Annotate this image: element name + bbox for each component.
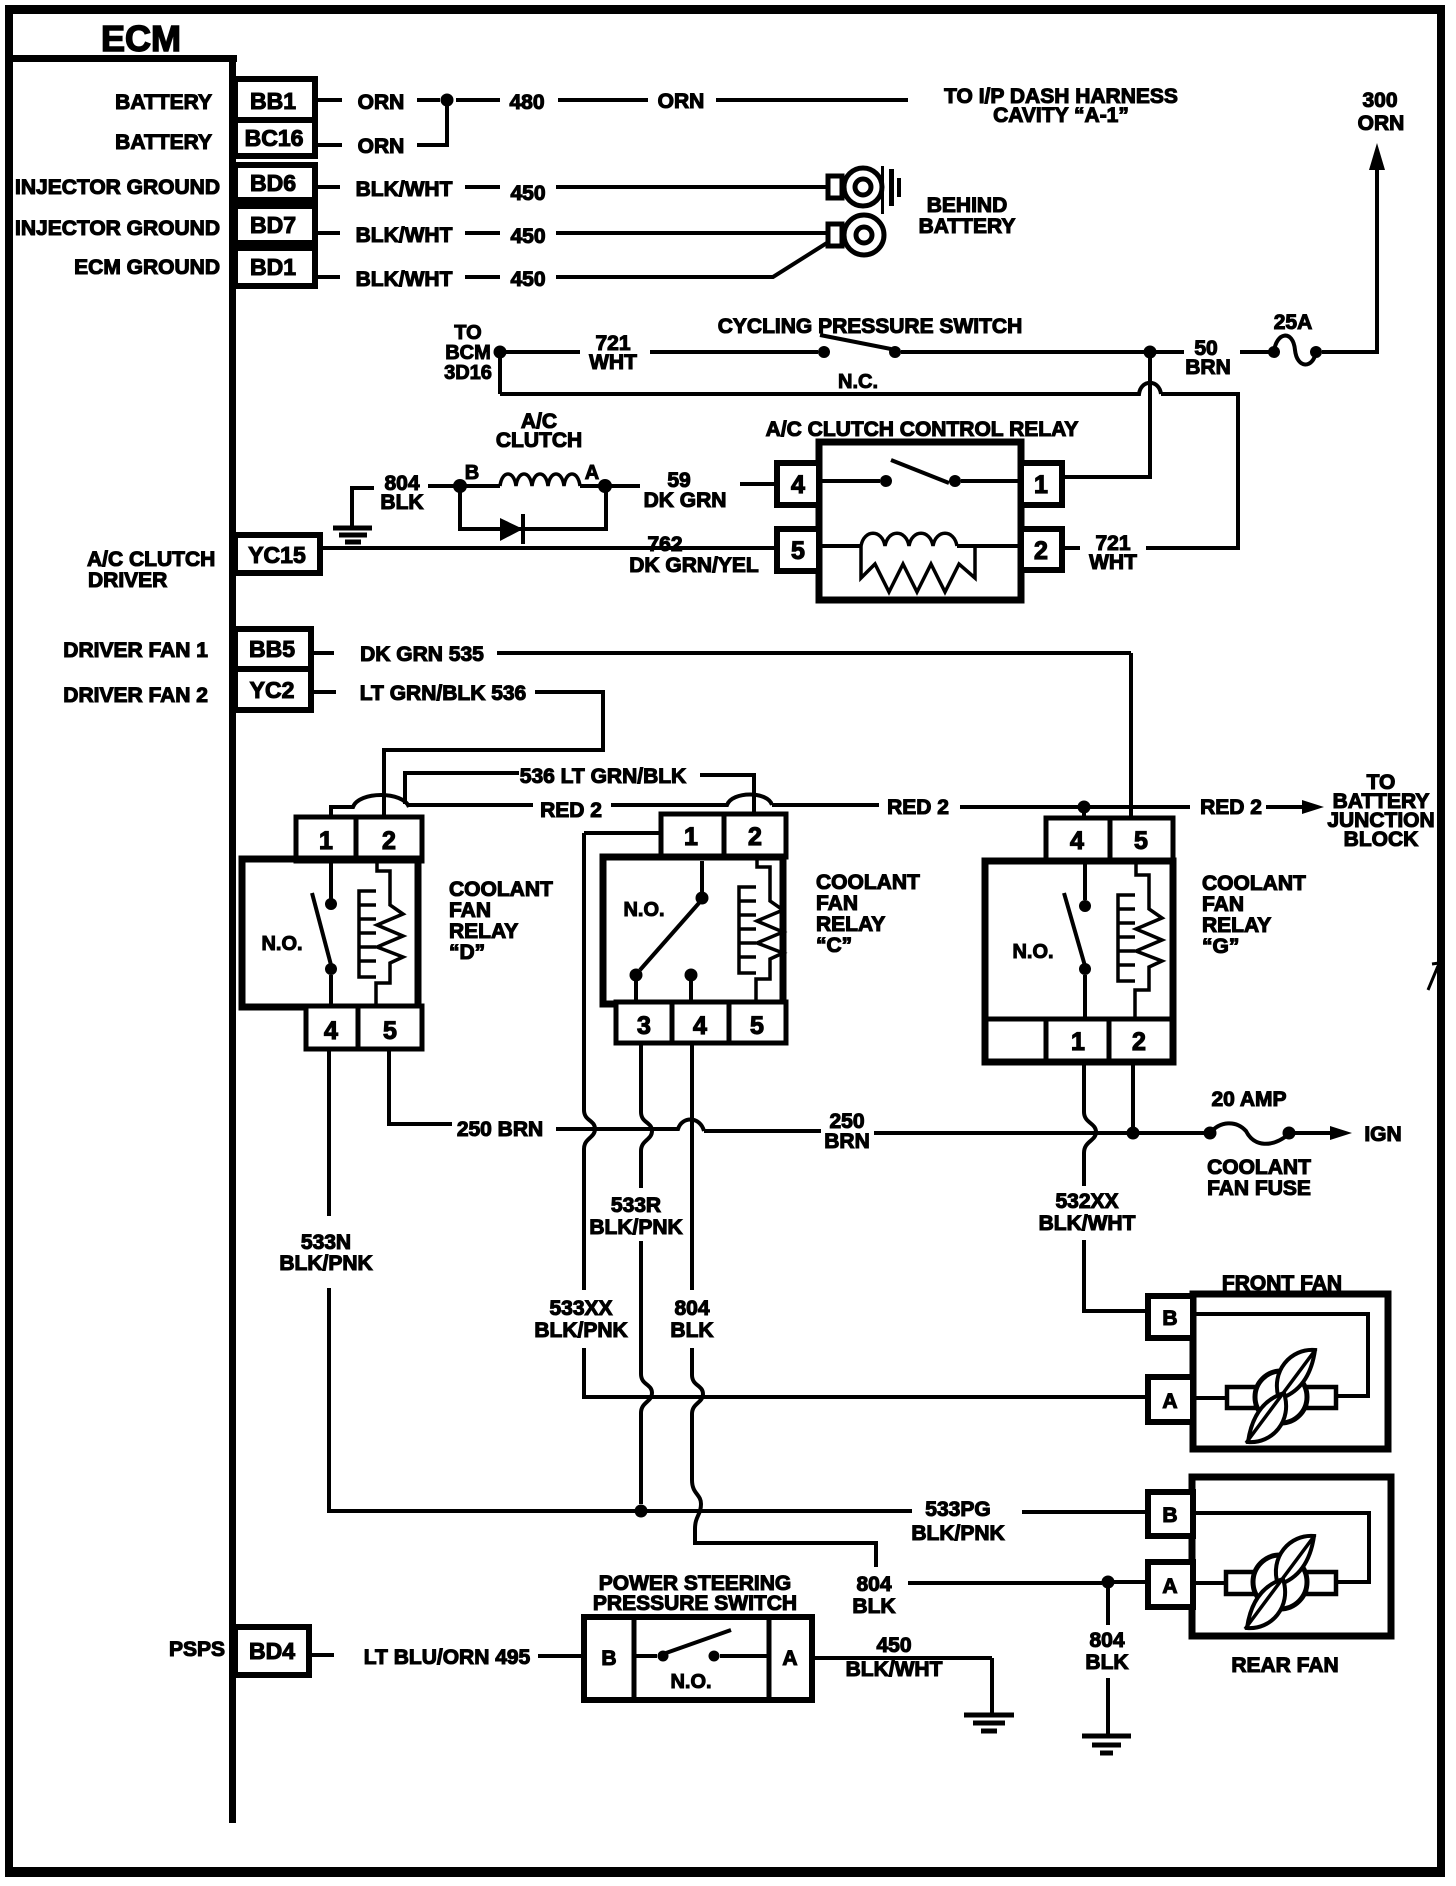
ECM pin BD4 (PSPS) bbox=[169, 1627, 309, 1675]
label COOLANT FAN RELAY G bbox=[1202, 872, 1306, 958]
svg-text:BLK/WHT: BLK/WHT bbox=[846, 1658, 943, 1681]
wire 536 LT GRN/BLK branch to relay C bbox=[405, 765, 754, 814]
svg-text:4: 4 bbox=[693, 1012, 707, 1040]
svg-text:A: A bbox=[1162, 1390, 1177, 1413]
ECM pin BD6 (INJECTOR GROUND) bbox=[15, 165, 315, 200]
svg-text:533R: 533R bbox=[611, 1194, 661, 1217]
wire 532XX BLK/WHT from relay G pin 1 to front fan B bbox=[1039, 1062, 1148, 1311]
svg-text:BRN: BRN bbox=[824, 1130, 870, 1153]
junction node RED 2 at relay G pin 4 bbox=[1078, 801, 1091, 819]
svg-text:YC2: YC2 bbox=[250, 677, 295, 703]
svg-text:BD7: BD7 bbox=[250, 212, 296, 238]
svg-text:REAR FAN: REAR FAN bbox=[1231, 1654, 1338, 1677]
motor M1 front fan bbox=[1148, 1272, 1388, 1449]
relay K2 body bbox=[242, 859, 418, 1007]
relay K2 switch bbox=[312, 861, 337, 1007]
svg-text:2: 2 bbox=[1132, 1028, 1146, 1056]
svg-text:BEHIND: BEHIND bbox=[927, 194, 1008, 217]
svg-text:YC15: YC15 bbox=[248, 542, 306, 568]
wire BB1 ORN 480 to I/P dash harness bbox=[315, 85, 1178, 127]
svg-text:INJECTOR GROUND: INJECTOR GROUND bbox=[15, 217, 220, 240]
svg-text:A: A bbox=[1162, 1575, 1177, 1598]
svg-text:5: 5 bbox=[750, 1012, 764, 1040]
svg-text:N.O.: N.O. bbox=[623, 899, 664, 921]
svg-text:1: 1 bbox=[319, 827, 333, 855]
svg-text:PSPS: PSPS bbox=[169, 1638, 225, 1661]
svg-text:450: 450 bbox=[510, 225, 545, 248]
svg-text:804: 804 bbox=[1089, 1629, 1124, 1652]
svg-text:RELAY: RELAY bbox=[449, 920, 518, 943]
wire 804 BLK to ground (rear) bbox=[1085, 1588, 1128, 1734]
junction node rear fan A / 804 BLK ground bbox=[1102, 1576, 1149, 1589]
motor M2 rear fan bbox=[1148, 1477, 1391, 1677]
ECM pin YC2 (DRIVER FAN 2) bbox=[63, 669, 311, 710]
node TO BCM 3D16 bbox=[444, 322, 506, 384]
svg-text:RED 2: RED 2 bbox=[1200, 796, 1262, 819]
wire 804 BLK from relay C pin 4 bbox=[670, 1043, 876, 1567]
label COOLANT FAN RELAY D bbox=[449, 878, 553, 964]
svg-text:BLK: BLK bbox=[380, 491, 423, 514]
relay K3 body bbox=[603, 857, 783, 1004]
svg-text:4: 4 bbox=[1070, 827, 1084, 855]
svg-text:3D16: 3D16 bbox=[444, 362, 492, 384]
svg-text:532XX: 532XX bbox=[1055, 1190, 1118, 1213]
svg-text:RED 2: RED 2 bbox=[887, 796, 949, 819]
wire 300 ORN with up arrow bbox=[1322, 89, 1404, 354]
svg-text:LT GRN/BLK 536: LT GRN/BLK 536 bbox=[360, 682, 526, 705]
svg-text:804: 804 bbox=[674, 1297, 709, 1320]
wire RED 2 to battery junction block bbox=[1090, 771, 1435, 851]
svg-text:WHT: WHT bbox=[589, 351, 637, 374]
svg-text:5: 5 bbox=[791, 537, 805, 565]
svg-text:536 LT GRN/BLK: 536 LT GRN/BLK bbox=[520, 765, 686, 788]
svg-text:BD6: BD6 bbox=[250, 170, 296, 196]
relay K1 pin 1 bbox=[1021, 463, 1062, 505]
wire 50 BRN bbox=[1156, 337, 1270, 379]
svg-text:ORN: ORN bbox=[358, 135, 405, 158]
svg-text:BLK/WHT: BLK/WHT bbox=[356, 178, 453, 201]
relay K3 switch bbox=[630, 861, 709, 1004]
svg-text:BLK/WHT: BLK/WHT bbox=[356, 224, 453, 247]
wire IGN feed arrow bbox=[1295, 1123, 1402, 1146]
svg-text:2: 2 bbox=[382, 827, 396, 855]
ECM pin BB5 (DRIVER FAN 1) bbox=[63, 629, 311, 669]
svg-text:450: 450 bbox=[510, 182, 545, 205]
wire 533XX BLK/PNK from relay C pin 1 to front fan A bbox=[534, 833, 1148, 1397]
svg-text:B: B bbox=[601, 1647, 616, 1670]
svg-text:A/C CLUTCH: A/C CLUTCH bbox=[87, 548, 215, 571]
svg-text:LT BLU/ORN 495: LT BLU/ORN 495 bbox=[364, 1646, 531, 1669]
junction node BB1/BC16 ORN bbox=[441, 94, 454, 107]
svg-text:BB1: BB1 bbox=[250, 88, 296, 114]
wire 762 DK GRN/YEL bbox=[320, 533, 777, 577]
node B of A/C clutch bbox=[453, 462, 479, 493]
svg-text:BLK: BLK bbox=[852, 1595, 895, 1618]
wire DK GRN 535 bbox=[311, 643, 1131, 818]
wire relay G pin 2 down to 250 BRN bbox=[1131, 1062, 1135, 1128]
svg-text:BLK/PNK: BLK/PNK bbox=[279, 1252, 372, 1275]
svg-text:CYCLING PRESSURE SWITCH: CYCLING PRESSURE SWITCH bbox=[718, 315, 1023, 338]
svg-text:DK GRN/YEL: DK GRN/YEL bbox=[629, 554, 759, 577]
svg-text:4: 4 bbox=[791, 471, 805, 499]
svg-text:RED 2: RED 2 bbox=[540, 799, 602, 822]
switch SW2 power steering pressure switch bbox=[584, 1617, 812, 1700]
relay K3 pin row 3 4 5 bbox=[616, 1002, 786, 1043]
svg-text:1: 1 bbox=[1034, 471, 1048, 499]
svg-text:BLK/PNK: BLK/PNK bbox=[589, 1216, 682, 1239]
svg-text:450: 450 bbox=[510, 268, 545, 291]
relay K1 pin 4 bbox=[777, 463, 819, 505]
svg-text:BD1: BD1 bbox=[250, 254, 296, 280]
wire relay D pin 1 to RED 2 with crossover hop bbox=[331, 795, 409, 818]
svg-text:533N: 533N bbox=[301, 1231, 351, 1254]
svg-text:N.O.: N.O. bbox=[261, 933, 302, 955]
wire N.C. branch to A/C clutch control relay pin 2 bbox=[500, 354, 1238, 548]
wire LT BLU/ORN 495 bbox=[309, 1646, 584, 1669]
svg-text:B: B bbox=[1162, 1307, 1177, 1330]
svg-text:BATTERY: BATTERY bbox=[115, 131, 212, 154]
svg-text:INJECTOR GROUND: INJECTOR GROUND bbox=[15, 176, 220, 199]
svg-text:BRN: BRN bbox=[1185, 356, 1231, 379]
svg-text:DRIVER FAN 2: DRIVER FAN 2 bbox=[63, 684, 208, 707]
relay K2 coolant fan relay D : pin row 1 2 bbox=[296, 817, 422, 861]
svg-text:ORN: ORN bbox=[1358, 112, 1405, 135]
label 804 BLK (A/C clutch ground wire) bbox=[380, 472, 454, 514]
wire 533PG BLK/PNK to rear fan B bbox=[647, 1498, 1148, 1545]
wire 721 WHT at relay pin 2 bbox=[1062, 532, 1137, 574]
svg-text:A: A bbox=[585, 462, 599, 484]
svg-text:4: 4 bbox=[324, 1017, 338, 1045]
ground symbol at 450 BLK/WHT bbox=[964, 1715, 1014, 1731]
svg-text:BLK/WHT: BLK/WHT bbox=[356, 268, 453, 291]
svg-text:BC16: BC16 bbox=[245, 125, 304, 151]
svg-text:2: 2 bbox=[748, 823, 762, 851]
svg-text:25A: 25A bbox=[1274, 311, 1313, 334]
relay K2 pin row 4 5 bbox=[306, 1006, 422, 1049]
label POWER STEERING PRESSURE SWITCH bbox=[593, 1572, 797, 1615]
ECM pin BD7 (INJECTOR GROUND) bbox=[15, 206, 315, 243]
node A of A/C clutch bbox=[580, 462, 640, 493]
wire 50 BRN junction down to relay K1 pin 1 bbox=[1065, 354, 1150, 477]
wire 533R BLK/PNK from relay C pin 3 bbox=[589, 1043, 682, 1504]
svg-text:3: 3 bbox=[637, 1012, 651, 1040]
ECM pin BD1 (ECM GROUND) bbox=[74, 248, 315, 286]
svg-text:FAN: FAN bbox=[1202, 893, 1244, 916]
svg-text:B: B bbox=[465, 462, 479, 484]
svg-text:WHT: WHT bbox=[1089, 551, 1137, 574]
wire BC16 ORN bbox=[315, 100, 447, 158]
wire 721 WHT to cycling pressure switch bbox=[505, 332, 818, 374]
relay K2 coil bbox=[359, 861, 403, 1007]
relay K1 pin 2 bbox=[1021, 529, 1062, 570]
svg-text:480: 480 bbox=[509, 91, 544, 114]
fuse 25A bbox=[1268, 311, 1322, 365]
relay K4 body bbox=[985, 861, 1173, 1062]
relay K3 coil bbox=[739, 857, 783, 1004]
svg-text:FAN: FAN bbox=[449, 899, 491, 922]
svg-text:CLUTCH: CLUTCH bbox=[496, 429, 582, 452]
ground eyelet terminal upper (behind battery) bbox=[828, 166, 901, 214]
svg-text:COOLANT: COOLANT bbox=[1207, 1156, 1311, 1179]
svg-text:A: A bbox=[782, 1647, 797, 1670]
ground symbol at rear fan 804 BLK bbox=[1082, 1736, 1131, 1753]
svg-text:“C”: “C” bbox=[816, 934, 852, 957]
coil L1 A/C clutch bbox=[465, 474, 580, 486]
arrow artifact at right border bbox=[1428, 963, 1439, 990]
wire RED 2 bus bbox=[409, 795, 1078, 823]
relay K4 switch bbox=[1064, 861, 1091, 1019]
svg-text:ECM GROUND: ECM GROUND bbox=[74, 256, 220, 279]
wire BD6 BLK/WHT 450 bbox=[315, 178, 830, 205]
svg-text:804: 804 bbox=[856, 1573, 891, 1596]
svg-text:CAVITY “A-1”: CAVITY “A-1” bbox=[993, 104, 1129, 127]
svg-text:BATTERY: BATTERY bbox=[115, 91, 212, 114]
wire 59 DK GRN bbox=[644, 469, 777, 512]
relay K1 pin 5 bbox=[777, 529, 819, 571]
svg-text:COOLANT: COOLANT bbox=[449, 878, 553, 901]
svg-text:1: 1 bbox=[684, 823, 698, 851]
relay K4 coil bbox=[1118, 861, 1162, 1019]
svg-text:B: B bbox=[1162, 1504, 1177, 1527]
svg-text:ECM: ECM bbox=[101, 18, 181, 59]
svg-text:BLK: BLK bbox=[670, 1319, 713, 1342]
svg-text:DRIVER: DRIVER bbox=[88, 569, 167, 592]
wire 533N BLK/PNK from relay D pin 4 bbox=[279, 1049, 635, 1511]
svg-text:COOLANT: COOLANT bbox=[1202, 872, 1306, 895]
svg-text:BLK/WHT: BLK/WHT bbox=[1039, 1212, 1136, 1235]
svg-text:RELAY: RELAY bbox=[1202, 914, 1271, 937]
svg-text:BCM: BCM bbox=[445, 342, 491, 364]
wire BD7 BLK/WHT 450 bbox=[315, 224, 828, 248]
svg-text:TO: TO bbox=[454, 322, 481, 344]
wire BD1 BLK/WHT 450 bbox=[315, 241, 830, 291]
svg-text:450: 450 bbox=[876, 1634, 911, 1657]
ECM pin YC15 (A/C CLUTCH DRIVER) bbox=[87, 535, 320, 592]
ECM module outline bbox=[9, 55, 237, 1823]
relay K1 coil with parallel resistor bbox=[822, 533, 1018, 592]
svg-text:A/C CLUTCH CONTROL RELAY: A/C CLUTCH CONTROL RELAY bbox=[766, 418, 1079, 441]
svg-text:DRIVER FAN 1: DRIVER FAN 1 bbox=[63, 639, 208, 662]
diode D1 across A/C clutch bbox=[460, 490, 606, 544]
svg-text:BLK: BLK bbox=[1085, 1651, 1128, 1674]
ground symbol at A/C clutch bbox=[333, 486, 374, 542]
svg-text:N.O.: N.O. bbox=[1012, 941, 1053, 963]
svg-text:BB5: BB5 bbox=[249, 636, 295, 662]
relay K4 pin row blank 1 2 bbox=[985, 1019, 1173, 1062]
svg-text:DK GRN: DK GRN bbox=[644, 489, 727, 512]
svg-text:COOLANT: COOLANT bbox=[816, 871, 920, 894]
svg-text:300: 300 bbox=[1362, 89, 1397, 112]
wire LT GRN/BLK 536 bbox=[311, 682, 603, 818]
fuse 20 AMP coolant fan fuse bbox=[1204, 1088, 1312, 1200]
svg-text:FAN: FAN bbox=[816, 892, 858, 915]
svg-text:N.O.: N.O. bbox=[670, 1671, 711, 1693]
svg-text:533XX: 533XX bbox=[549, 1297, 612, 1320]
svg-text:FAN FUSE: FAN FUSE bbox=[1207, 1177, 1311, 1200]
svg-text:BLK/PNK: BLK/PNK bbox=[534, 1319, 627, 1342]
svg-text:BD4: BD4 bbox=[249, 1638, 295, 1664]
svg-text:BLOCK: BLOCK bbox=[1344, 828, 1419, 851]
relay K1 switch contacts bbox=[822, 460, 1018, 487]
wire 250 BRN from relay D pin 5 bbox=[389, 1049, 1204, 1153]
svg-text:PRESSURE SWITCH: PRESSURE SWITCH bbox=[593, 1592, 797, 1615]
switch SW1 cycling pressure switch bbox=[718, 315, 1144, 358]
label BEHIND BATTERY bbox=[919, 194, 1016, 238]
ground eyelet terminal lower (behind battery) bbox=[828, 215, 884, 255]
svg-text:1: 1 bbox=[1071, 1028, 1085, 1056]
svg-text:BATTERY: BATTERY bbox=[919, 215, 1016, 238]
svg-text:“D”: “D” bbox=[449, 941, 485, 964]
svg-text:ORN: ORN bbox=[658, 90, 705, 113]
svg-text:RELAY: RELAY bbox=[816, 913, 885, 936]
junction node 250 BRN at relay G pin 2 bbox=[1127, 1127, 1140, 1140]
svg-text:250 BRN: 250 BRN bbox=[457, 1118, 543, 1141]
svg-text:DK GRN 535: DK GRN 535 bbox=[360, 643, 484, 666]
relay K1 body bbox=[819, 442, 1021, 600]
relay K4 coolant fan relay G : pin row 4 5 bbox=[1046, 818, 1173, 861]
wire 450 BLK/WHT to ground bbox=[812, 1634, 992, 1713]
label A/C CLUTCH bbox=[496, 410, 582, 452]
junction node 533PG at 533R bbox=[635, 1505, 648, 1518]
ECM pin BB1 (BATTERY) bbox=[115, 79, 315, 120]
svg-text:20 AMP: 20 AMP bbox=[1211, 1088, 1286, 1111]
junction node 50 BRN bbox=[1144, 346, 1157, 359]
relay K3 coolant fan relay C : pin row 1 2 bbox=[661, 814, 786, 857]
svg-text:ORN: ORN bbox=[358, 91, 405, 114]
svg-text:BLK/PNK: BLK/PNK bbox=[911, 1522, 1004, 1545]
svg-text:N.C.: N.C. bbox=[838, 371, 878, 393]
svg-text:762: 762 bbox=[647, 533, 682, 556]
svg-text:533PG: 533PG bbox=[925, 1498, 990, 1521]
svg-text:IGN: IGN bbox=[1364, 1123, 1401, 1146]
wire 804 BLK to rear fan A bbox=[852, 1573, 1102, 1618]
svg-text:5: 5 bbox=[383, 1017, 397, 1045]
svg-text:“G”: “G” bbox=[1202, 935, 1239, 958]
svg-text:5: 5 bbox=[1134, 827, 1148, 855]
ECM pin BC16 (BATTERY) bbox=[115, 120, 315, 156]
svg-text:2: 2 bbox=[1034, 537, 1048, 565]
label COOLANT FAN RELAY C bbox=[816, 871, 920, 957]
